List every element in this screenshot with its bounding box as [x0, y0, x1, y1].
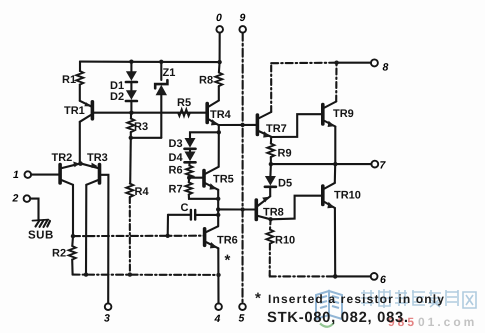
ground SUB	[33, 220, 51, 227]
node: rail / TR9 collector junction	[334, 61, 338, 65]
wire: TR3 base to pin3	[100, 175, 109, 304]
pin 2	[24, 195, 39, 220]
wire: bottom-left rail (dash-dot)	[73, 274, 219, 276]
wire: TR5 base from R6/R7 tap	[189, 177, 204, 179]
transistor TR5	[204, 167, 219, 190]
transistor TR1	[80, 101, 93, 122]
svg-text:R5: R5	[177, 97, 191, 109]
wire: TR2 collector down	[72, 185, 74, 236]
pin 4	[215, 303, 222, 310]
node: rail-R4 junction	[128, 272, 132, 276]
node: rail-Z1 junction	[159, 60, 163, 64]
wire: pin6 rail (dash-dot then solid)	[270, 275, 336, 276]
wire: TR7 emitter to R9	[270, 137, 272, 144]
transistor TR8	[256, 196, 270, 219]
node: rail-D1 junction	[129, 60, 133, 64]
svg-text:TR6: TR6	[217, 235, 238, 247]
diode D4	[185, 149, 196, 166]
svg-text:R6: R6	[169, 165, 183, 177]
wire: R7 bottom elbow to TR5 emitter	[189, 195, 218, 199]
svg-text:TR7: TR7	[266, 123, 287, 135]
svg-text:D5: D5	[278, 178, 292, 190]
wire: junction down to R10 (dashed)	[269, 219, 272, 229]
svg-text:6: 6	[380, 274, 386, 286]
diode D2	[126, 82, 137, 113]
svg-text:*: *	[225, 252, 231, 269]
svg-text:9: 9	[240, 12, 246, 24]
svg-text:3: 3	[104, 313, 110, 325]
wire: R1 to TR1 collector	[79, 85, 81, 101]
node A: TR1 base / D2 / R5 bus	[92, 112, 207, 114]
watermark: 98501.com	[388, 315, 477, 329]
diode D5	[265, 164, 276, 196]
svg-text:STK-080, 082, 083.: STK-080, 082, 083.	[267, 310, 409, 326]
transistor TR10	[323, 183, 335, 208]
transistor TR3	[82, 163, 100, 185]
resistor R10	[266, 230, 273, 244]
wire: TR5 collector vertical	[218, 132, 220, 167]
wire: TR9 collector up to rail (dashed)	[335, 63, 337, 102]
svg-text:R2: R2	[52, 248, 66, 260]
transistor TR2	[60, 162, 79, 185]
zener Z1	[155, 62, 167, 138]
pin 6	[371, 273, 378, 280]
wire: V+ left rail	[80, 61, 220, 64]
svg-text:R9: R9	[278, 148, 292, 160]
wire: R10 down to pin6 rail (dash)	[269, 244, 271, 276]
svg-text:01.com: 01.com	[418, 315, 477, 329]
wire: V+ right rail (dash-dot to junction, solid to pin8)	[271, 62, 336, 65]
wire: pin 7 line	[271, 163, 372, 165]
wire: pin2 to SUB ground	[30, 199, 38, 220]
pin 7	[371, 161, 378, 168]
wire: node B to Z1 bottom	[131, 137, 162, 139]
resistor R2	[69, 246, 76, 260]
wire: R9 to pin7 line	[270, 157, 272, 164]
wire: TR6 emitter down to pin4	[217, 248, 219, 303]
wire: TR7 collector up to right rail (dash-dot)	[270, 63, 272, 112]
svg-text:*: *	[255, 290, 261, 307]
svg-text:C: C	[181, 202, 189, 214]
node: TR2 collector / R2 / TR6-base junction	[71, 234, 75, 238]
wire: R4 down to bottom rail (dash-dot)	[129, 197, 131, 275]
wire: TR3 collector down to bottom rail	[85, 185, 87, 275]
svg-text:D2: D2	[110, 91, 124, 103]
node: TR9 emitter / TR10 collector junction	[333, 162, 337, 166]
wire: TR1 emitter down to diff pair tail	[79, 122, 81, 164]
svg-text:TR4: TR4	[210, 109, 232, 121]
svg-text:R4: R4	[135, 186, 150, 198]
transistor TR7	[257, 112, 271, 138]
pin 3	[105, 303, 112, 310]
wire: TR5 emitter vertical down	[217, 190, 219, 227]
svg-text:1: 1	[13, 169, 19, 181]
node: pin9 bus / TR8 base wire junction	[240, 207, 244, 211]
wire: pin9/pin5 vertical bus (dash-dot)	[241, 33, 243, 304]
svg-text:R8: R8	[199, 75, 213, 87]
transistor TR4	[207, 101, 219, 126]
svg-text:R10: R10	[275, 235, 295, 247]
svg-text:Z1: Z1	[163, 67, 176, 79]
wire: C left plate down to TR6 base bus	[167, 215, 169, 236]
note text: asterisk footnote	[255, 290, 445, 326]
svg-text:5: 5	[239, 313, 245, 325]
wire: pin1 to TR2 base	[31, 174, 60, 176]
resistor R1	[76, 71, 83, 85]
node: TR10 emitter / pin6 rail junction	[333, 274, 338, 279]
wire: D-chain top horizontal	[190, 132, 219, 138]
wire: TR4/TR5 vertical (emitter chain)	[218, 125, 220, 132]
svg-text:R7: R7	[169, 184, 183, 196]
pin 1	[25, 171, 61, 178]
wire: junction to R2	[71, 236, 74, 246]
svg-text:TR1: TR1	[64, 105, 85, 117]
svg-text:8: 8	[383, 62, 389, 74]
resistor R7	[185, 178, 218, 199]
svg-text:TR8: TR8	[263, 207, 284, 219]
resistor R3	[127, 113, 134, 138]
watermark: chinese site name glyph blocks	[361, 289, 476, 308]
wire: R2 to bottom-left rail corner	[71, 260, 74, 275]
svg-text:4: 4	[214, 313, 221, 325]
node: TR3 collector bottom junction	[84, 272, 88, 276]
resistor R9	[267, 144, 274, 158]
svg-text:R3: R3	[134, 121, 148, 133]
svg-text:TR9: TR9	[333, 108, 354, 120]
resistor R5	[178, 109, 190, 116]
resistor R4	[126, 184, 133, 198]
pin 0	[216, 26, 223, 62]
svg-text:TR3: TR3	[87, 152, 108, 164]
watermark: blue open-book logo	[316, 291, 342, 319]
node: pin9 bus / TR7 base wire junction	[240, 123, 244, 127]
capacitor C	[168, 210, 219, 236]
node: R6/R7 junction (TR5 base tap)	[187, 176, 191, 180]
node: C-cap tap on TR6 base bus	[166, 234, 170, 238]
wire: TR7 emitter to TR9 base (step)	[272, 114, 323, 137]
wire: rail corner to R1	[79, 62, 81, 71]
diode D1	[126, 62, 137, 82]
transistor TR6	[205, 226, 219, 248]
labels: pin numbers	[12, 12, 389, 325]
resistor R8	[215, 62, 222, 100]
svg-text:SUB: SUB	[28, 230, 54, 242]
pin 9	[239, 26, 246, 303]
node: rail-pin0-R8 junction	[217, 60, 221, 64]
wire: TR10 emitter down to pin6 rail	[334, 208, 336, 276]
svg-text:0: 0	[216, 12, 222, 24]
svg-text:TR10: TR10	[334, 190, 361, 202]
node: diff pair tail junction	[78, 161, 83, 166]
node: TR5 emitter / R7 junction	[216, 197, 220, 201]
node: C-cap right junction	[216, 213, 220, 217]
svg-text:D3: D3	[169, 138, 183, 150]
svg-text:2: 2	[12, 193, 19, 205]
node B: R3 bottom junction	[129, 136, 133, 140]
wire: node B down to R4	[129, 138, 132, 184]
pin 8	[371, 59, 378, 66]
wire: TR4 emitter to TR7 base	[219, 124, 258, 126]
svg-text:Inserted a resistor in only: Inserted a resistor in only	[268, 292, 445, 306]
svg-text:D4: D4	[169, 152, 184, 164]
wire: pin0 stub to rail	[219, 33, 221, 62]
labels: component designators	[28, 67, 361, 269]
node: R9 / D5 junction	[269, 162, 273, 166]
watermark: green swoosh	[320, 323, 334, 327]
resistor R6	[186, 166, 193, 178]
node: bottom-left rail end junction	[216, 273, 220, 277]
node: TR8-base-wire tap	[216, 207, 220, 211]
diode D3	[185, 138, 196, 149]
svg-text:R1: R1	[62, 74, 76, 86]
wire: TR10 base step from TR8 emitter	[271, 196, 323, 220]
svg-text:TR5: TR5	[213, 174, 234, 186]
pin 5	[239, 303, 246, 310]
transistor TR9	[323, 102, 336, 128]
wire: TR9 emitter down to pin7 line	[334, 127, 336, 165]
svg-text:7: 7	[380, 160, 387, 172]
wire: TR10 collector up to pin7 line	[334, 164, 337, 183]
node: TR8 emitter / R10 / TR10-base junction	[268, 217, 272, 221]
wire: TR8 base bus	[218, 208, 256, 210]
svg-text:TR2: TR2	[52, 152, 73, 164]
wire: TR6 base bus (dash-dot)	[73, 235, 205, 238]
node: D-chain top junction	[217, 130, 221, 134]
